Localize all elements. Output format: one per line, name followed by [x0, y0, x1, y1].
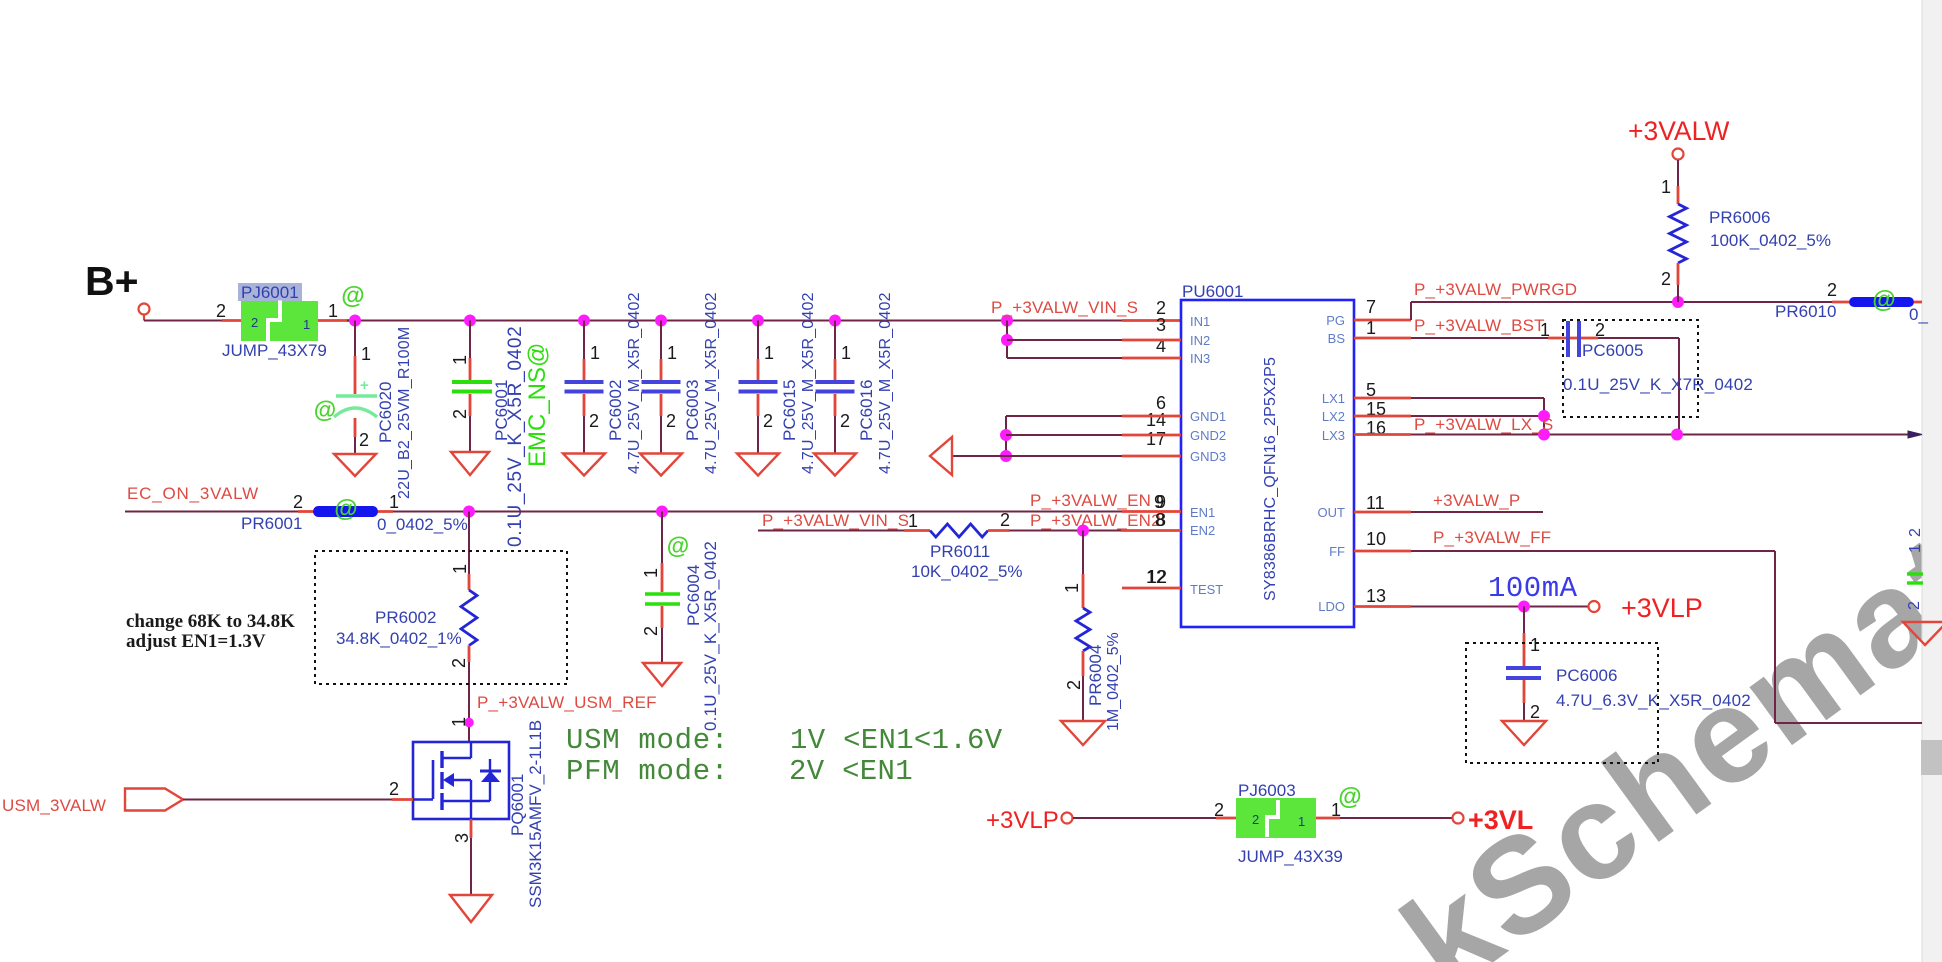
svg-text:3: 3 [452, 833, 472, 843]
svg-text:4.7U_25V_M_X5R_0402: 4.7U_25V_M_X5R_0402 [626, 292, 643, 474]
svg-text:0.1U_25V_K_X5R_0402: 0.1U_25V_K_X5R_0402 [505, 326, 526, 547]
svg-text:JUMP_43X39: JUMP_43X39 [1238, 847, 1343, 866]
svg-text:PC6002: PC6002 [606, 380, 625, 441]
svg-text:1: 1 [328, 301, 338, 321]
svg-text:@: @ [1338, 784, 1361, 811]
svg-text:LDO: LDO [1318, 599, 1345, 614]
svg-text:BS: BS [1328, 331, 1346, 346]
svg-text:1: 1 [450, 564, 470, 574]
svg-text:P_+3VALW_FF: P_+3VALW_FF [1433, 528, 1551, 547]
svg-text:TEST: TEST [1190, 582, 1223, 597]
svg-text:1: 1 [908, 511, 918, 531]
svg-text:2: 2 [1907, 528, 1924, 537]
svg-text:1: 1 [389, 492, 399, 512]
svg-text:PR6002: PR6002 [375, 608, 436, 627]
svg-text:1: 1 [450, 355, 470, 365]
svg-text:4.7U_6.3V_K_X5R_0402: 4.7U_6.3V_K_X5R_0402 [1556, 691, 1751, 710]
svg-text:PC6016: PC6016 [857, 380, 876, 441]
svg-text:10: 10 [1366, 529, 1386, 549]
svg-text:GND2: GND2 [1190, 428, 1226, 443]
svg-text:+3VALW: +3VALW [1628, 116, 1729, 146]
svg-text:+3VLP: +3VLP [1621, 593, 1703, 623]
svg-text:2: 2 [450, 409, 470, 419]
svg-text:2: 2 [1530, 702, 1540, 722]
svg-text:IN3: IN3 [1190, 351, 1210, 366]
svg-text:+3VLP: +3VLP [986, 807, 1059, 834]
svg-text:2: 2 [1595, 320, 1605, 340]
svg-text:0.1U_25V_K_X7R_0402: 0.1U_25V_K_X7R_0402 [1563, 375, 1753, 394]
svg-text:P_+3VALW_EN: P_+3VALW_EN [1030, 491, 1151, 510]
svg-text:PC6015: PC6015 [780, 380, 799, 441]
svg-text:11: 11 [1366, 493, 1385, 513]
svg-text:1: 1 [667, 343, 677, 363]
svg-text:PR6001: PR6001 [241, 514, 302, 533]
svg-text:P_+3VALW_VIN_S: P_+3VALW_VIN_S [762, 511, 909, 530]
svg-text:EMC_NS@: EMC_NS@ [524, 343, 551, 467]
svg-text:1: 1 [1540, 320, 1550, 340]
svg-text:2: 2 [1906, 601, 1923, 610]
svg-text:EN1: EN1 [1190, 505, 1215, 520]
svg-text:USM_3VALW: USM_3VALW [2, 796, 106, 815]
svg-text:+3VL: +3VL [1468, 805, 1533, 835]
svg-text:@: @ [314, 396, 336, 422]
svg-text:10K_0402_5%: 10K_0402_5% [911, 562, 1023, 581]
svg-text:LX3: LX3 [1322, 428, 1345, 443]
svg-text:GND3: GND3 [1190, 449, 1226, 464]
svg-text:0_0402_5%: 0_0402_5% [377, 515, 468, 534]
svg-text:2: 2 [1252, 812, 1259, 827]
svg-text:P_+3VALW_EN2: P_+3VALW_EN2 [1030, 511, 1161, 530]
svg-text:100mA: 100mA [1488, 572, 1578, 605]
svg-text:7: 7 [1366, 297, 1376, 317]
svg-text:2: 2 [1064, 680, 1084, 690]
svg-text:SY8386BRHC_QFN16_2P5X2P5: SY8386BRHC_QFN16_2P5X2P5 [1262, 357, 1279, 601]
svg-text:@: @ [341, 283, 364, 310]
svg-text:PC6003: PC6003 [683, 380, 702, 441]
svg-text:1: 1 [590, 343, 600, 363]
svg-text:1: 1 [641, 568, 661, 578]
svg-text:B+: B+ [85, 258, 139, 304]
svg-text:change 68K to 34.8K: change 68K to 34.8K [126, 611, 295, 632]
svg-text:2: 2 [293, 492, 303, 512]
svg-text:1: 1 [1907, 544, 1924, 553]
svg-text:P_+3VALW_USM_REF: P_+3VALW_USM_REF [477, 693, 657, 712]
svg-text:PC6005: PC6005 [1582, 341, 1643, 360]
svg-text:PJ6003: PJ6003 [1238, 781, 1296, 800]
svg-text:4.7U_25V_M_X5R_0402: 4.7U_25V_M_X5R_0402 [800, 292, 817, 474]
svg-text:13: 13 [1366, 586, 1386, 606]
svg-text:1: 1 [1062, 583, 1082, 593]
svg-text:1: 1 [841, 343, 851, 363]
svg-text:PU6001: PU6001 [1182, 282, 1243, 301]
svg-text:@: @ [667, 532, 689, 558]
svg-text:PR6011: PR6011 [930, 542, 990, 561]
svg-text:PR6010: PR6010 [1775, 302, 1836, 321]
svg-text:PR6006: PR6006 [1709, 208, 1770, 227]
svg-text:P_+3VALW_LX_S: P_+3VALW_LX_S [1414, 415, 1553, 434]
svg-text:17: 17 [1146, 429, 1166, 449]
svg-text:@: @ [1872, 287, 1895, 314]
svg-text:FF: FF [1329, 544, 1345, 559]
svg-text:PC6020: PC6020 [376, 382, 395, 443]
svg-text:IN2: IN2 [1190, 333, 1210, 348]
svg-text:IN1: IN1 [1190, 314, 1210, 329]
svg-text:2: 2 [840, 411, 850, 431]
svg-text:2: 2 [666, 411, 676, 431]
svg-text:PQ6001: PQ6001 [508, 774, 527, 836]
svg-text:1: 1 [764, 343, 774, 363]
svg-text:2: 2 [1214, 800, 1224, 820]
svg-text:EC_ON_3VALW: EC_ON_3VALW [127, 484, 259, 503]
svg-text:2: 2 [359, 430, 369, 450]
svg-text:4.7U_25V_M_X5R_0402: 4.7U_25V_M_X5R_0402 [877, 292, 894, 474]
svg-text:PR6004: PR6004 [1086, 645, 1105, 706]
svg-text:PJ6001: PJ6001 [241, 283, 299, 302]
svg-text:OUT: OUT [1318, 505, 1346, 520]
svg-text:9: 9 [1154, 492, 1164, 512]
svg-text:4.7U_25V_M_X5R_0402: 4.7U_25V_M_X5R_0402 [703, 292, 720, 474]
svg-text:1M_0402_5%: 1M_0402_5% [1105, 632, 1122, 731]
svg-text:0_: 0_ [1909, 305, 1928, 324]
svg-text:2: 2 [389, 779, 399, 799]
svg-text:P_+3VALW_PWRGD: P_+3VALW_PWRGD [1414, 280, 1577, 299]
svg-text:1: 1 [303, 317, 310, 332]
svg-text:14: 14 [1146, 410, 1166, 430]
svg-text:1: 1 [361, 344, 371, 364]
svg-text:+: + [360, 377, 369, 394]
svg-text:+3VALW_P: +3VALW_P [1433, 491, 1520, 510]
svg-text:1: 1 [1530, 635, 1540, 655]
svg-text:LX1: LX1 [1322, 391, 1345, 406]
svg-text:12: 12 [1147, 567, 1167, 587]
svg-text:PG: PG [1326, 313, 1345, 328]
svg-text:2: 2 [589, 411, 599, 431]
svg-text:0.1U_25V_K_X5R_0402: 0.1U_25V_K_X5R_0402 [701, 541, 720, 731]
svg-text:adjust EN1=1.3V: adjust EN1=1.3V [126, 631, 266, 652]
svg-text:2: 2 [449, 658, 469, 668]
svg-text:P_+3VALW_VIN_S: P_+3VALW_VIN_S [991, 298, 1138, 317]
svg-text:2: 2 [1661, 269, 1671, 289]
svg-text:GND1: GND1 [1190, 409, 1226, 424]
svg-text:2: 2 [216, 301, 226, 321]
svg-text:JUMP_43X79: JUMP_43X79 [222, 341, 327, 360]
svg-text:@: @ [334, 496, 357, 523]
svg-text:EN2: EN2 [1190, 523, 1215, 538]
svg-text:2: 2 [1827, 280, 1837, 300]
svg-text:2: 2 [1000, 510, 1010, 530]
svg-text:SSM3K15AMFV_2-1L1B: SSM3K15AMFV_2-1L1B [526, 720, 545, 908]
svg-text:1: 1 [449, 717, 469, 727]
svg-text:2: 2 [641, 626, 661, 636]
svg-text:34.8K_0402_1%: 34.8K_0402_1% [336, 629, 462, 648]
svg-text:PFM mode:: PFM mode: [566, 755, 729, 788]
svg-text:2: 2 [763, 411, 773, 431]
svg-text:PC6006: PC6006 [1556, 666, 1617, 685]
svg-text:1: 1 [1298, 814, 1305, 829]
svg-text:1: 1 [1661, 177, 1671, 197]
svg-text:2: 2 [251, 315, 258, 330]
svg-text:22U_B2_25VM_R100M: 22U_B2_25VM_R100M [396, 327, 413, 499]
svg-text:8: 8 [1155, 510, 1165, 530]
svg-text:LX2: LX2 [1322, 409, 1345, 424]
svg-text:P_+3VALW_BST: P_+3VALW_BST [1414, 316, 1545, 335]
svg-text:100K_0402_5%: 100K_0402_5% [1710, 231, 1831, 250]
svg-text:3: 3 [1156, 315, 1166, 335]
svg-text:1V <EN1<1.6V: 1V <EN1<1.6V [790, 724, 1003, 757]
svg-text:2V <EN1: 2V <EN1 [789, 755, 913, 788]
